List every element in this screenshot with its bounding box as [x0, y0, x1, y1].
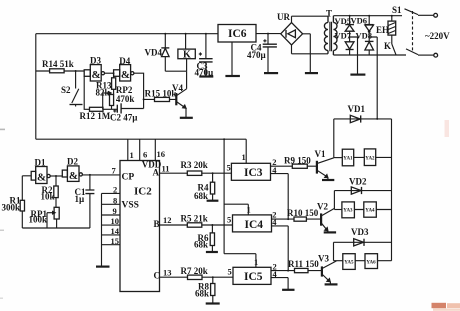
- ground rectifier: [350, 73, 365, 75]
- potentiometer RP2: [103, 85, 135, 109]
- IC5: [224, 254, 288, 290]
- IC3: [227, 139, 289, 219]
- solenoid YA4: [354, 202, 391, 217]
- diode VD6: [351, 15, 374, 42]
- svg-text:IC4: IC4: [245, 219, 264, 231]
- svg-text:68k: 68k: [195, 289, 209, 299]
- resistor R4: [194, 172, 215, 201]
- resistor R10: [272, 208, 322, 221]
- solenoid YA5: [334, 254, 356, 270]
- diode VD7: [335, 31, 355, 56]
- svg-text:1: 1: [242, 152, 246, 162]
- svg-text:VD3: VD3: [351, 227, 369, 237]
- diode VD8: [356, 31, 374, 56]
- resistor R13: [96, 73, 116, 97]
- svg-text:D2: D2: [67, 157, 78, 167]
- svg-text:R7 20k: R7 20k: [181, 266, 208, 276]
- relay contact K: [384, 41, 396, 55]
- wire VDD rail: [36, 138, 246, 140]
- diode VD3: [334, 227, 392, 246]
- svg-text:CP: CP: [122, 173, 135, 183]
- ground C3: [199, 75, 213, 77]
- svg-text:VSS: VSS: [122, 201, 139, 211]
- svg-text:&: &: [69, 170, 78, 182]
- IC6 voltage regulator: [218, 25, 281, 76]
- wire D1 input from R1: [22, 176, 31, 201]
- svg-text:YA5: YA5: [344, 261, 354, 266]
- wire V4 collector node: [165, 70, 186, 72]
- wire row A: [160, 164, 232, 174]
- IC4: [224, 204, 288, 270]
- svg-text:S1: S1: [392, 5, 402, 15]
- wire bottom node: [22, 213, 90, 228]
- svg-text:VD2: VD2: [349, 177, 367, 187]
- wire D1 out to D2 in: [50, 175, 62, 177]
- solenoid YA1: [334, 149, 354, 166]
- transistor V3: [318, 254, 337, 285]
- resistor R14: [36, 59, 84, 73]
- NAND gate D2: [62, 157, 82, 183]
- ground R6: [206, 251, 218, 253]
- potentiometer RP1: [29, 207, 60, 224]
- resistor R8: [195, 276, 215, 303]
- svg-text:T: T: [326, 9, 332, 19]
- svg-text:V2: V2: [317, 202, 328, 212]
- svg-text:V4: V4: [172, 83, 183, 93]
- ground IC5 pin4: [282, 289, 294, 291]
- svg-text:7: 7: [112, 166, 117, 176]
- transistor V2: [317, 202, 334, 233]
- capacitor C1: [75, 175, 95, 228]
- bridge rectifier UR: [277, 12, 310, 73]
- svg-text:V3: V3: [318, 254, 329, 264]
- svg-text:100k: 100k: [29, 215, 48, 225]
- label 220V: [425, 31, 450, 41]
- svg-text:12: 12: [163, 215, 172, 225]
- NAND gate D4: [114, 56, 134, 81]
- svg-text:2: 2: [113, 185, 117, 195]
- ground R4: [207, 200, 219, 202]
- heater EH: [376, 15, 396, 44]
- NAND gate D3: [84, 56, 104, 82]
- wire group3 left: [333, 242, 335, 260]
- switch S2: [61, 70, 83, 107]
- resistor R1: [2, 196, 25, 229]
- ground IC6: [225, 75, 240, 77]
- svg-text:VD6: VD6: [351, 16, 368, 26]
- svg-text:300k: 300k: [2, 203, 21, 213]
- resistor R15: [144, 89, 177, 102]
- svg-text:V1: V1: [315, 149, 326, 159]
- diode VD5: [335, 15, 355, 42]
- capacitor C3: [195, 33, 215, 78]
- svg-text:VD7: VD7: [335, 31, 352, 41]
- wire solenoid feed: [369, 37, 377, 119]
- ground C4: [264, 72, 278, 74]
- wire group2 left: [333, 191, 335, 210]
- ground V4: [180, 117, 193, 119]
- svg-text:68k: 68k: [194, 191, 208, 201]
- ground VSS: [96, 266, 110, 268]
- svg-text:IC2: IC2: [134, 186, 152, 198]
- transistor V4: [172, 71, 187, 117]
- watermark logo: [432, 120, 460, 311]
- capacitor C2: [110, 103, 144, 122]
- svg-text:IC5: IC5: [244, 271, 263, 283]
- ground V3: [325, 283, 338, 285]
- relay coil K: [178, 33, 195, 71]
- solenoid YA6: [355, 254, 391, 269]
- svg-text:EH: EH: [376, 25, 389, 35]
- wire D3 input feedback: [84, 76, 89, 109]
- svg-text:&: &: [37, 172, 46, 184]
- svg-text:5: 5: [227, 163, 231, 173]
- svg-text:10: 10: [111, 216, 120, 226]
- svg-text:9: 9: [113, 206, 117, 216]
- resistor R2: [41, 176, 59, 207]
- ground V2: [324, 231, 336, 233]
- svg-text:D1: D1: [35, 158, 46, 168]
- IC2: [112, 139, 166, 291]
- svg-text:C: C: [154, 271, 161, 281]
- resistor R11: [271, 259, 322, 273]
- resistor R9: [271, 156, 317, 169]
- ground UR: [305, 72, 318, 74]
- wire rectifier mid-left to ground: [350, 37, 358, 74]
- wire primary bottom rail: [333, 54, 406, 56]
- svg-text:IC3: IC3: [244, 167, 263, 179]
- svg-text:1: 1: [130, 150, 134, 160]
- wire IC2 left pin stubs: [102, 185, 121, 246]
- svg-text:&: &: [121, 69, 130, 81]
- wire +V top rail: [36, 33, 218, 35]
- transistor V1: [315, 149, 334, 180]
- NAND gate D1: [31, 158, 50, 184]
- svg-text:VD4: VD4: [145, 48, 163, 58]
- svg-text:~220V: ~220V: [425, 31, 450, 41]
- resistor R3: [181, 160, 208, 175]
- svg-text:8: 8: [113, 196, 117, 206]
- wire YA right rail: [391, 119, 393, 261]
- capacitor C4: [247, 33, 277, 73]
- resistor R7: [181, 266, 208, 280]
- svg-text:IC6: IC6: [228, 28, 247, 40]
- svg-text:R11 150: R11 150: [288, 259, 319, 269]
- resistor R5: [181, 214, 208, 228]
- svg-text:YA2: YA2: [365, 157, 375, 162]
- svg-text:K: K: [183, 50, 191, 61]
- wire row C: [160, 268, 234, 278]
- resistor R12: [80, 107, 118, 121]
- svg-text:&: &: [92, 69, 101, 81]
- diode VD4: [145, 33, 170, 71]
- svg-text:16: 16: [157, 149, 166, 159]
- ground R8: [206, 302, 220, 304]
- wire primary top rail: [333, 15, 402, 17]
- svg-text:R14 51k: R14 51k: [42, 59, 74, 69]
- wire row B: [160, 215, 233, 225]
- svg-text:10k: 10k: [41, 192, 55, 202]
- ground V1: [322, 179, 334, 181]
- svg-text:6: 6: [143, 150, 147, 160]
- svg-text:5: 5: [228, 267, 232, 277]
- svg-text:D4: D4: [119, 56, 130, 66]
- svg-text:R10 150: R10 150: [287, 208, 319, 218]
- svg-text:VD5: VD5: [335, 16, 352, 26]
- wire secondary top: [292, 15, 329, 17]
- svg-text:YA6: YA6: [366, 261, 376, 266]
- svg-text:68k: 68k: [194, 240, 208, 250]
- wire secondary bottom: [292, 53, 329, 55]
- svg-text:UR: UR: [277, 12, 290, 22]
- svg-text:YA3: YA3: [343, 209, 353, 214]
- svg-text:VD1: VD1: [348, 104, 366, 114]
- transformer T: [324, 9, 337, 56]
- svg-text:13: 13: [163, 268, 172, 278]
- wire VDD bus: [223, 138, 225, 254]
- svg-text:YA4: YA4: [365, 209, 375, 214]
- wire left supply edge: [35, 34, 37, 140]
- svg-text:11: 11: [162, 164, 170, 174]
- wire group1 left: [333, 119, 335, 158]
- wire D4 output loop: [134, 73, 145, 108]
- svg-text:B: B: [154, 219, 160, 229]
- diode VD2: [334, 177, 391, 195]
- svg-text:R9 150: R9 150: [284, 156, 311, 166]
- diode VD1: [334, 104, 392, 123]
- svg-text:470µ: 470µ: [247, 50, 267, 60]
- wire VSS bus: [101, 193, 103, 266]
- solenoid YA3: [334, 202, 354, 218]
- svg-text:R3 20k: R3 20k: [181, 160, 208, 170]
- switch S1: [392, 5, 438, 57]
- svg-text:15: 15: [111, 236, 120, 246]
- svg-text:D3: D3: [90, 56, 101, 66]
- svg-text:14: 14: [111, 226, 120, 236]
- svg-text:R12 1M: R12 1M: [80, 111, 111, 121]
- svg-text:C2 47µ: C2 47µ: [110, 113, 138, 123]
- wire D3 output to D4 input: [105, 72, 115, 74]
- resistor R6: [194, 224, 215, 252]
- wire D2 out to CP pin7: [82, 174, 120, 176]
- svg-text:YA1: YA1: [343, 157, 353, 162]
- svg-text:K: K: [384, 41, 391, 51]
- svg-text:5: 5: [227, 215, 231, 225]
- svg-text:470k: 470k: [116, 94, 135, 104]
- svg-text:A: A: [153, 168, 160, 178]
- scan speck: [0, 129, 5, 299]
- svg-text:R5 21k: R5 21k: [181, 214, 208, 224]
- svg-text:S2: S2: [61, 85, 71, 95]
- solenoid YA2: [354, 149, 392, 166]
- svg-text:1µ: 1µ: [75, 194, 86, 204]
